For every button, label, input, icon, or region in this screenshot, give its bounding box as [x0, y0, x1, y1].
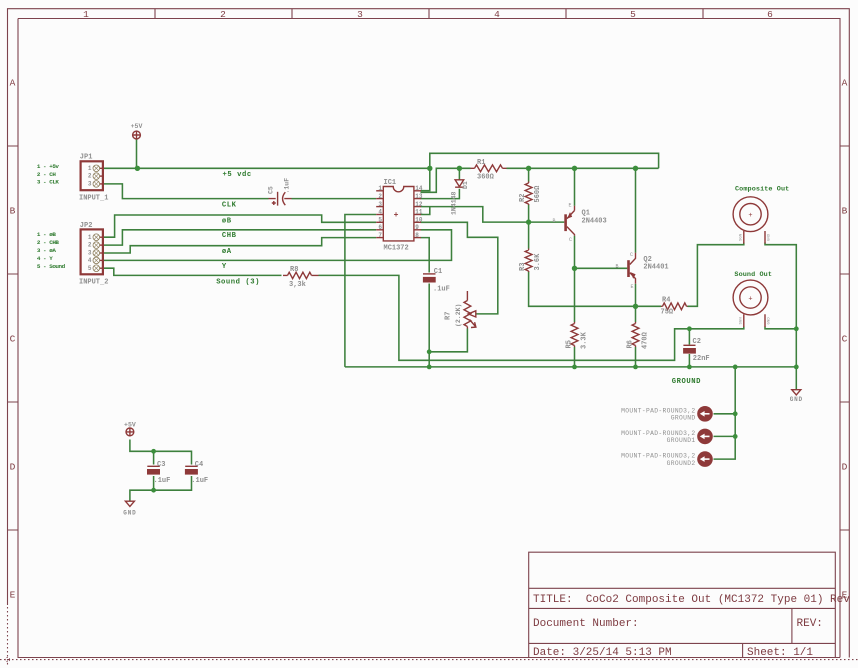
svg-text:Q1: Q1 [582, 210, 590, 218]
power +5V symbol (C3/C4) [124, 422, 136, 437]
svg-text:+5 vdc: +5 vdc [223, 171, 252, 179]
frame column numbers top [83, 9, 773, 20]
svg-text:2: 2 [378, 193, 382, 200]
svg-text:JP2: JP2 [80, 222, 93, 230]
net label oB [222, 217, 232, 225]
svg-text:6: 6 [767, 9, 773, 20]
wire: C3 C4 decoupling net [130, 440, 192, 502]
svg-text:+: + [748, 212, 752, 220]
svg-text:C: C [10, 334, 16, 345]
wire: R3 leads and bottom run to Q2 emitter node [529, 222, 636, 306]
svg-text:GND: GND [768, 317, 772, 325]
wire: VCC rail feeding R1, D1, R2, Q1, Q2 (from IC1 pin 14) [421, 168, 659, 192]
svg-text:D: D [10, 462, 16, 473]
svg-text:+5V: +5V [124, 422, 136, 429]
svg-text:+: + [394, 211, 399, 220]
svg-text:Date: 3/25/14 5:13 PM: Date: 3/25/14 5:13 PM [533, 647, 672, 659]
svg-text:(2.2K): (2.2K) [455, 304, 462, 327]
wire: Q1 collector to Q2 base node [575, 236, 628, 268]
node C3 top [151, 449, 156, 454]
svg-text:11: 11 [415, 209, 423, 216]
svg-text:.1uF: .1uF [154, 477, 171, 485]
svg-text:B: B [616, 264, 619, 270]
svg-text:TITLE: CoCo2 Composite Out (M: TITLE: CoCo2 Composite Out (MC1372 Type … [533, 594, 850, 606]
svg-text:B: B [842, 206, 848, 217]
svg-text:GND: GND [123, 510, 136, 517]
svg-text:4 - Y: 4 - Y [37, 255, 53, 262]
wire: Q1 emitter to VCC rail [574, 168, 576, 206]
svg-text:C4: C4 [195, 461, 203, 469]
svg-text:Q2: Q2 [643, 256, 651, 264]
frame row letters right [842, 78, 848, 601]
wire: IC1 pin10 to R7 wiper [421, 222, 498, 314]
node C2 at ground rail [687, 365, 692, 370]
svg-text:A: A [10, 78, 16, 89]
node C3 bottom [151, 488, 156, 493]
svg-text:CHB: CHB [222, 232, 237, 240]
wire: Y net JP2 pin4 to IC1 pin9 [104, 230, 452, 261]
node Q1 collector / Q2 base / R5 [572, 266, 577, 271]
svg-text:.1uF: .1uF [433, 285, 450, 293]
svg-text:5 - Sound: 5 - Sound [37, 263, 66, 270]
svg-text:R4: R4 [662, 297, 670, 305]
wire: R5 leads Q1 collector node to ground [574, 268, 576, 367]
wire: mount pad ground bus [714, 367, 736, 459]
net label Y [222, 263, 227, 271]
capacitor C5 .1uF [268, 178, 292, 206]
wire: CHB net JP2 pin2 to IC1 pin6 [104, 230, 376, 245]
svg-text:.1uF: .1uF [191, 477, 208, 485]
node R5 at ground rail [572, 365, 577, 370]
mount pad GROUND [621, 406, 713, 422]
svg-text:3: 3 [378, 201, 382, 208]
wire: ground rail [345, 366, 796, 368]
svg-text:3: 3 [88, 181, 92, 188]
resistor R8 [283, 266, 319, 289]
net label oA [222, 248, 232, 256]
svg-text:9: 9 [415, 224, 419, 231]
resistor R4 [661, 297, 688, 317]
svg-text:12: 12 [415, 201, 423, 208]
capacitor C3 .1uF [147, 461, 170, 485]
svg-text:Sound (3): Sound (3) [216, 279, 260, 287]
connector X2 Sound Out RCA jack [733, 271, 772, 327]
svg-text:10: 10 [415, 217, 423, 224]
node mount pad 1 [733, 411, 738, 416]
svg-text:8: 8 [415, 232, 419, 239]
svg-text:3 - CLK: 3 - CLK [37, 179, 60, 186]
wire: oA net JP2 pin3 to IC1 pin7 [104, 238, 376, 253]
svg-text:D1: D1 [462, 181, 469, 189]
ground GND symbol (output side) [790, 390, 803, 403]
node Q2 collector on rail [633, 166, 638, 171]
svg-text:Document Number:: Document Number: [533, 618, 639, 630]
svg-text:5: 5 [630, 9, 636, 20]
svg-text:Composite Out: Composite Out [735, 186, 789, 194]
svg-text:1: 1 [378, 185, 382, 192]
svg-text:REV:: REV: [797, 618, 823, 630]
svg-text:5: 5 [378, 217, 382, 224]
title block text Document Number [533, 618, 823, 630]
svg-text:C5: C5 [268, 186, 275, 194]
svg-text:4: 4 [88, 257, 92, 264]
svg-text:SGN: SGN [740, 233, 744, 241]
svg-text:MOUNT-PAD-ROUND3,2: MOUNT-PAD-ROUND3,2 [621, 453, 695, 460]
svg-text:øA: øA [222, 248, 232, 256]
svg-text:1: 1 [83, 9, 89, 20]
svg-text:C: C [630, 252, 633, 258]
node R2 top on rail [526, 166, 531, 171]
svg-text:C: C [842, 334, 848, 345]
transistor Q1 2N4403 [553, 203, 607, 244]
svg-text:E: E [569, 203, 572, 209]
wire: IC1 pin13 to D1 cathode [421, 168, 460, 198]
node VCC at IC1 pin14 drop [427, 166, 432, 171]
potentiometer R7 [445, 291, 477, 329]
title block text Date / Sheet [533, 647, 813, 659]
wire: ground drop to GND symbol [795, 329, 797, 390]
svg-text:2: 2 [88, 242, 92, 249]
svg-text:3: 3 [357, 9, 363, 20]
svg-text:470Ω: 470Ω [642, 331, 650, 349]
svg-text:2: 2 [88, 173, 92, 180]
svg-text:360Ω: 360Ω [477, 174, 495, 182]
wire: Composite jack shield down right side [765, 243, 796, 329]
svg-text:R3: R3 [519, 263, 527, 271]
net label CLK [222, 201, 237, 209]
node JP2 pin name list [37, 231, 66, 270]
node R7 bottom on C1 line [427, 349, 432, 354]
svg-text:øB: øB [222, 217, 232, 225]
frame column ticks top [155, 9, 703, 19]
title block frame [529, 552, 836, 657]
svg-text:.1uF: .1uF [284, 178, 291, 194]
net label CHB [222, 232, 237, 240]
net label +5 vdc [223, 171, 252, 179]
node C2 top on sound line [687, 326, 692, 331]
svg-text:INPUT_2: INPUT_2 [79, 279, 108, 287]
svg-text:560Ω: 560Ω [534, 185, 542, 203]
svg-text:2 - CH: 2 - CH [37, 171, 56, 178]
svg-text:D: D [842, 462, 848, 473]
connector JP1 INPUT_1 [79, 154, 108, 203]
capacitor C1 .1uF [423, 268, 450, 294]
diode D1 1N4148 [451, 180, 470, 215]
node shield junction right [794, 326, 799, 331]
svg-text:Sound Out: Sound Out [734, 271, 772, 279]
resistor R3 [519, 249, 542, 273]
svg-text:22nF: 22nF [693, 355, 710, 363]
svg-text:2: 2 [220, 9, 226, 20]
svg-text:R1: R1 [477, 159, 485, 167]
node mount pad 2 [733, 434, 738, 439]
svg-text:MC1372: MC1372 [384, 245, 409, 253]
svg-text:3.3K: 3.3K [581, 331, 589, 349]
svg-text:E: E [10, 590, 16, 601]
wire: Sound jack shield to ground drop [765, 327, 796, 329]
svg-text:4: 4 [494, 9, 500, 20]
node JP1 pin name list [37, 163, 60, 186]
svg-text:CLK: CLK [222, 201, 237, 209]
wire: +5V supply net (JP1 pin1, +5V symbol drop, top rail to node) [104, 140, 659, 191]
wire: IC1 pin12 and pin11 to R2 bottom and Q1 base [421, 207, 565, 223]
svg-text:R2: R2 [519, 194, 527, 202]
svg-text:2N4403: 2N4403 [582, 217, 607, 225]
op-amp U1 / IC1 MC1372 [376, 179, 423, 253]
svg-text:3: 3 [88, 250, 92, 257]
frame row letters left [10, 78, 16, 601]
svg-text:GND: GND [768, 233, 772, 241]
svg-text:GROUND: GROUND [672, 378, 701, 386]
resistor R2 [519, 182, 542, 206]
svg-text:R7: R7 [445, 312, 453, 320]
svg-text:3 - øA: 3 - øA [37, 247, 56, 254]
svg-text:R6: R6 [627, 340, 635, 348]
svg-text:3,3k: 3,3k [289, 281, 306, 289]
svg-text:6: 6 [378, 224, 382, 231]
svg-text:R8: R8 [290, 266, 298, 274]
mount pad GROUND2 [621, 451, 713, 467]
svg-text:+5V: +5V [131, 123, 143, 130]
svg-text:GROUND: GROUND [671, 415, 696, 422]
node D1 anode on rail [457, 166, 462, 171]
power +5V symbol (top) [131, 123, 143, 140]
svg-text:GROUND2: GROUND2 [667, 460, 696, 467]
svg-text:2 - CHB: 2 - CHB [37, 239, 60, 246]
wire: R6 leads emitter node to ground [635, 306, 637, 367]
svg-text:GROUND1: GROUND1 [667, 437, 696, 444]
svg-text:13: 13 [415, 193, 423, 200]
node C1 at ground rail [427, 365, 432, 370]
wire: Q2 collector to VCC rail [635, 168, 637, 253]
svg-text:Y: Y [222, 263, 227, 271]
svg-text:7: 7 [378, 232, 382, 239]
wire: R4 to Composite jack tip [636, 243, 744, 307]
transistor Q2 2N4401 [616, 252, 669, 290]
svg-text:1 - øB: 1 - øB [37, 231, 56, 238]
svg-text:2N4401: 2N4401 [643, 264, 668, 272]
svg-text:SGN: SGN [740, 317, 744, 325]
svg-text:C2: C2 [693, 338, 701, 346]
svg-text:14: 14 [415, 185, 423, 192]
svg-text:R5: R5 [566, 340, 574, 348]
mount pad GROUND1 [621, 429, 713, 445]
resistor R6 [627, 322, 650, 349]
node +5V / JP1 pin1 junction [135, 166, 140, 171]
node GND drop at ground rail [794, 365, 799, 370]
resistor R1 [471, 159, 507, 182]
svg-text:4: 4 [378, 209, 382, 216]
frame row ticks right [840, 146, 849, 530]
ground GND symbol (C3/C4) [123, 501, 136, 516]
node pad bus at ground rail [733, 365, 738, 370]
wire: R2 leads [528, 168, 530, 222]
svg-text:B: B [553, 218, 556, 224]
node Q2 emitter / R3 / R4 / R6 [633, 304, 638, 309]
svg-text:GND: GND [790, 396, 803, 403]
title block text TITLE [533, 594, 850, 606]
svg-text:E: E [631, 284, 634, 290]
net label GROUND [672, 378, 701, 386]
svg-text:+: + [748, 296, 752, 304]
svg-text:75Ω: 75Ω [661, 309, 674, 317]
wire: oB net JP2 pin1 to IC1 pin5 [104, 215, 376, 237]
wire: Q2 emitter to output node [635, 284, 637, 307]
wire: R7 bottom to C1 ground line [429, 329, 467, 352]
svg-text:MOUNT-PAD-ROUND3,2: MOUNT-PAD-ROUND3,2 [621, 407, 695, 414]
capacitor C2 22nF [683, 338, 710, 363]
svg-text:1: 1 [88, 234, 92, 241]
net label Sound (3) [216, 279, 260, 287]
connector JP2 INPUT_2 [79, 222, 108, 287]
wire: IC1 pin8 through C1 to ground rail [421, 238, 430, 367]
svg-text:Sheet: 1/1: Sheet: 1/1 [747, 647, 813, 659]
node Q1 base / R2 / R3 [526, 219, 531, 224]
wire: Sound net JP2 pin5 through R8 to C2/Sound jack [104, 268, 744, 360]
frame row ticks left [8, 146, 19, 530]
svg-text:B: B [10, 206, 16, 217]
svg-text:JP1: JP1 [80, 154, 93, 162]
node Q1 emitter on rail [572, 166, 577, 171]
svg-text:1N4148: 1N4148 [451, 191, 458, 215]
wire: IC1 pin4 to ground rail [345, 215, 376, 367]
svg-text:MOUNT-PAD-ROUND3,2: MOUNT-PAD-ROUND3,2 [621, 430, 695, 437]
svg-text:C: C [569, 237, 572, 243]
svg-text:1: 1 [88, 165, 92, 172]
svg-text:5: 5 [88, 265, 92, 272]
node R6 at ground rail [633, 365, 638, 370]
svg-text:C1: C1 [434, 268, 442, 276]
resistor R5 [566, 322, 589, 349]
svg-text:3.6K: 3.6K [534, 253, 542, 271]
wire: CLK net JP1 pin3 to C5 to IC1 pin2 [104, 184, 376, 199]
wire: C2 leads [688, 329, 690, 367]
svg-text:C3: C3 [157, 461, 165, 469]
svg-text:IC1: IC1 [384, 179, 397, 187]
capacitor C4 .1uF [185, 461, 208, 485]
connector X1 Composite Out RCA jack [733, 186, 789, 244]
svg-text:A: A [842, 78, 848, 89]
svg-text:1 - +5v: 1 - +5v [37, 163, 60, 170]
svg-text:INPUT_1: INPUT_1 [79, 195, 108, 203]
